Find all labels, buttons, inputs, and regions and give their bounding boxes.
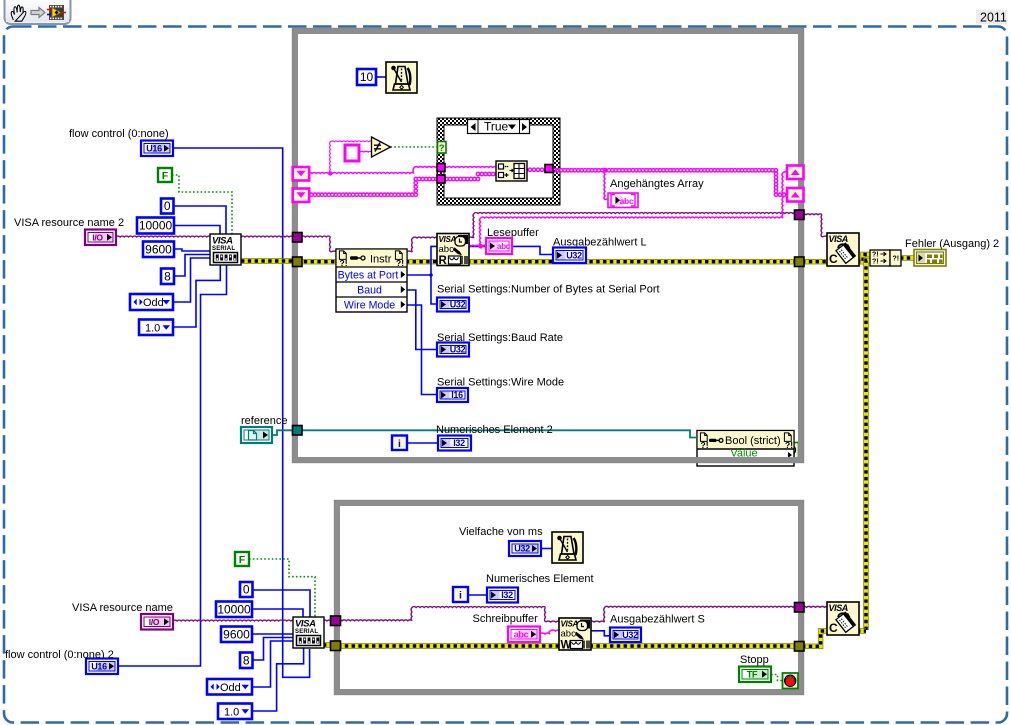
svg-text:True: True [484, 120, 509, 134]
svg-text:abc: abc [620, 196, 634, 206]
svg-text:U32: U32 [514, 544, 530, 554]
svg-text:9600: 9600 [145, 242, 172, 256]
svg-text:9600: 9600 [223, 627, 250, 641]
svg-text:VISA resource name: VISA resource name [72, 602, 173, 614]
svg-text:0: 0 [243, 583, 250, 597]
svg-text:2011: 2011 [980, 11, 1007, 25]
svg-text:?!: ?! [701, 440, 709, 450]
svg-text:C: C [829, 252, 838, 266]
svg-text:R: R [439, 255, 448, 267]
svg-text:VISA: VISA [439, 235, 457, 244]
svg-text:U32: U32 [450, 300, 466, 310]
svg-text:abc: abc [514, 629, 529, 639]
svg-text:1.0: 1.0 [145, 322, 160, 334]
svg-text:Serial Settings:Number of Byte: Serial Settings:Number of Bytes at Seria… [437, 284, 660, 296]
svg-text:?: ? [439, 143, 445, 154]
svg-text:U16: U16 [146, 143, 162, 153]
svg-text:I32: I32 [453, 438, 465, 448]
svg-text:VISA: VISA [829, 234, 848, 244]
svg-text:F: F [162, 170, 169, 182]
svg-text:8: 8 [243, 653, 250, 667]
svg-text:TF: TF [747, 669, 758, 679]
svg-text:SERIAL: SERIAL [295, 629, 318, 635]
svg-text:I32: I32 [501, 590, 513, 600]
svg-text:Fehler (Ausgang) 2: Fehler (Ausgang) 2 [905, 238, 999, 250]
svg-text:U32: U32 [622, 630, 638, 640]
svg-text:Serial Settings:Wire Mode: Serial Settings:Wire Mode [437, 377, 564, 389]
svg-text:Stopp: Stopp [740, 654, 769, 666]
svg-text:?!: ?! [396, 258, 404, 268]
svg-text:W: W [561, 640, 572, 652]
svg-text:Numerisches Element 2: Numerisches Element 2 [436, 424, 553, 436]
svg-text:Baud: Baud [357, 284, 382, 296]
svg-text:Numerisches Element: Numerisches Element [486, 573, 594, 585]
svg-text:reference: reference [241, 415, 287, 427]
svg-text:10000: 10000 [217, 602, 251, 616]
svg-text:I/O: I/O [149, 617, 160, 627]
svg-text:10000: 10000 [139, 219, 173, 233]
svg-text:Schreibpuffer: Schreibpuffer [473, 613, 539, 625]
svg-text:10: 10 [360, 70, 374, 84]
svg-text:Ausgabezählwert S: Ausgabezählwert S [610, 614, 705, 626]
svg-text:SERIAL: SERIAL [212, 246, 235, 252]
svg-text:Angehängtes Array: Angehängtes Array [610, 178, 704, 190]
svg-text:Odd: Odd [143, 297, 164, 309]
svg-text:i: i [459, 590, 462, 602]
svg-text:Wire Mode: Wire Mode [344, 299, 395, 311]
svg-text:F: F [239, 554, 246, 566]
svg-text:1.0: 1.0 [224, 706, 239, 718]
svg-text:Vielfache von ms: Vielfache von ms [459, 526, 543, 538]
svg-text:U32: U32 [450, 345, 466, 355]
svg-text:?!: ?! [872, 259, 879, 266]
svg-text:C: C [829, 621, 838, 635]
svg-text:U16: U16 [91, 661, 107, 671]
svg-text:I16: I16 [451, 390, 463, 400]
svg-text:abc: abc [497, 242, 511, 251]
svg-text:VISA: VISA [561, 620, 579, 629]
svg-text:VISA: VISA [829, 603, 848, 613]
svg-text:i: i [398, 438, 401, 450]
svg-text:VISA resource name 2: VISA resource name 2 [14, 217, 124, 229]
svg-text:8: 8 [164, 269, 171, 283]
svg-text:VISA: VISA [295, 619, 316, 630]
svg-text:Bool (strict): Bool (strict) [725, 435, 781, 447]
svg-text:VISA: VISA [212, 236, 233, 247]
svg-text:0: 0 [164, 199, 171, 213]
svg-text:flow control (0:none): flow control (0:none) [69, 128, 169, 140]
svg-text:abc: abc [439, 244, 455, 255]
svg-text:U32: U32 [566, 250, 582, 260]
svg-text:?!: ?! [785, 440, 793, 450]
svg-text:Instr: Instr [370, 254, 392, 266]
svg-text:Odd: Odd [220, 682, 241, 694]
svg-text:abc: abc [561, 629, 577, 640]
svg-text:Bytes at Port: Bytes at Port [338, 269, 399, 281]
svg-text:?!: ?! [872, 252, 879, 259]
svg-text:?!: ?! [340, 258, 348, 268]
svg-text:?!: ?! [893, 256, 900, 263]
svg-text:I/O: I/O [92, 232, 103, 242]
